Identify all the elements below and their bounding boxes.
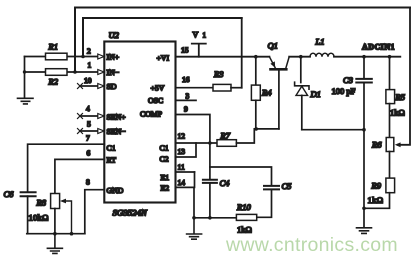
wire pin6 RT row to R8 [55, 159, 104, 193]
resistor R5 [389, 57, 391, 90]
svg-text:13: 13 [178, 147, 186, 156]
wire pin11 row [176, 171, 195, 173]
junction dot C3 top [362, 55, 366, 59]
svg-text:7: 7 [86, 134, 90, 143]
pin stub OSC pin3 [176, 99, 197, 101]
svg-text:C6: C6 [4, 189, 15, 199]
svg-text:14: 14 [178, 178, 186, 187]
pin triangle pin4 [98, 114, 104, 119]
svg-text:V: V [193, 31, 199, 40]
svg-text:IN+: IN+ [107, 53, 120, 62]
svg-text:C3: C3 [343, 75, 353, 85]
svg-text:4: 4 [86, 104, 90, 113]
capacitor C4 [203, 180, 217, 183]
ground G4 (bottom right) [357, 228, 372, 234]
wire C5 bottom to R10 [257, 189, 272, 217]
capacitor C3 [363, 57, 365, 79]
ground G3 (mid bottom) [187, 218, 202, 239]
R6 wiper arrow [395, 142, 401, 147]
svg-text:www.cntronics.com: www.cntronics.com [225, 234, 398, 256]
junction dot R5 top [388, 55, 392, 59]
capacitor C5 [264, 186, 279, 190]
wire COMP down [176, 115, 210, 180]
svg-text:11: 11 [178, 163, 185, 172]
pin stub SEN+ pin4 with x [80, 115, 98, 117]
svg-text:C2: C2 [160, 155, 169, 164]
svg-text:3: 3 [186, 92, 190, 101]
svg-text:R5: R5 [395, 92, 405, 102]
wire pin12 row to R7 [176, 142, 218, 144]
svg-text:R4: R4 [261, 88, 272, 98]
wire R2 row (pin 1 IN-) [25, 71, 98, 73]
resistor R3 [213, 84, 231, 91]
svg-text:SD: SD [107, 82, 117, 91]
junction dot feedback/pin1 [73, 70, 77, 74]
svg-text:6: 6 [87, 149, 91, 158]
wire bottom-left ground bus [27, 233, 85, 235]
svg-text:R2: R2 [48, 77, 59, 87]
R8 wiper arrow [63, 201, 72, 234]
svg-text:E2: E2 [161, 184, 170, 193]
junction dot COMP/pin12 row [208, 141, 212, 145]
wire rail collector to L1 [289, 56, 310, 58]
svg-text:C1: C1 [107, 144, 116, 153]
svg-text:R1: R1 [48, 42, 58, 52]
pin triangle pin1 [98, 70, 104, 75]
potentiometer R8 [51, 194, 60, 209]
svg-text:R6: R6 [371, 140, 382, 150]
svg-text:D1: D1 [310, 89, 321, 99]
svg-text:9: 9 [184, 105, 188, 114]
svg-text:5: 5 [87, 120, 91, 129]
junction dot C4-bus [208, 216, 212, 220]
svg-text:2: 2 [87, 47, 91, 56]
wire pin14 loop [176, 172, 195, 187]
svg-text:E1: E1 [161, 173, 170, 182]
wire top feedback (R6 wiper to IN-) [75, 7, 410, 9]
IC U1 SG3524N box [104, 42, 175, 203]
wire main +V rail from pin15 [176, 56, 270, 58]
junction dot R4 bottom [254, 127, 258, 131]
wire right drop of top feedback to R6 wiper [398, 8, 410, 145]
svg-text:C4: C4 [220, 178, 231, 188]
svg-text:COMP: COMP [140, 110, 163, 119]
svg-text:+VI: +VI [157, 54, 170, 63]
wire rail L1 to right [334, 56, 400, 58]
svg-text:1kΩ: 1kΩ [368, 195, 384, 205]
resistor R10 [236, 214, 256, 220]
svg-text:IN−: IN− [107, 68, 120, 77]
ground G1 (under R1/R2) [18, 98, 34, 104]
wire left vertical to ground [24, 57, 26, 98]
wire pin7 CT row to C6 [28, 144, 105, 192]
junction dot E-bus [192, 216, 196, 220]
wire R8 bottom [54, 209, 56, 234]
svg-text:12: 12 [178, 132, 186, 141]
power symbol +V1 [192, 44, 206, 57]
svg-text:+5V: +5V [151, 84, 165, 93]
svg-text:Q1: Q1 [268, 41, 278, 51]
svg-text:1: 1 [88, 61, 92, 70]
svg-text:L1: L1 [315, 37, 325, 47]
svg-text:1kΩ: 1kΩ [390, 108, 405, 118]
pin triangle pin5 [98, 129, 104, 134]
svg-text:C5: C5 [282, 181, 292, 191]
junction dot D1 top [299, 55, 303, 59]
wire R9 bottom to C3 vertical [364, 193, 390, 209]
wire R3 right to vertical [231, 87, 242, 89]
svg-text:SEN−: SEN− [107, 127, 127, 136]
junction dot C3/R9 bus [362, 207, 366, 211]
wire pin8 GND row [85, 190, 105, 234]
svg-text:C1: C1 [160, 144, 169, 153]
wire R1 row (pin 2 IN+) [25, 56, 98, 58]
wire D1 bottom to C3 vertical [302, 129, 364, 131]
ground G2 (bottom left) [47, 234, 62, 254]
wire mid ground bus [194, 217, 236, 219]
svg-text:RT: RT [107, 156, 117, 165]
junction dot R4 top [254, 55, 258, 59]
potentiometer R6 [386, 138, 394, 152]
wire C4 bottom [209, 183, 211, 218]
svg-text:10: 10 [84, 76, 92, 85]
junction dot R2 row [23, 70, 26, 73]
resistor R9 [386, 178, 395, 193]
svg-text:1: 1 [203, 32, 207, 40]
svg-text:15: 15 [181, 46, 189, 55]
pin triangle pin10 [98, 84, 104, 89]
svg-text:R8: R8 [36, 198, 47, 208]
svg-text:SEN+: SEN+ [107, 113, 127, 122]
capacitor C6 [21, 192, 36, 196]
svg-text:ADCIN1: ADCIN1 [362, 43, 395, 52]
svg-text:R9: R9 [371, 181, 382, 191]
resistor R4 [255, 57, 257, 85]
svg-text:1kΩ: 1kΩ [237, 225, 252, 235]
svg-text:R10: R10 [236, 202, 251, 212]
wire R5 to R6 [389, 104, 391, 138]
diode D1 zener [300, 57, 302, 83]
svg-text:10kΩ: 10kΩ [29, 213, 49, 223]
wire second feedback (VREF node to IN+) [83, 17, 242, 19]
wire R7 right to base node [236, 129, 279, 143]
wire COMP branch to C5 [210, 167, 272, 186]
resistor R7 [217, 140, 236, 147]
inductor L1 [310, 53, 334, 56]
svg-text:U2: U2 [109, 30, 120, 40]
wire E1E2 down to ground bus [193, 187, 195, 217]
svg-text:SG3524N: SG3524N [113, 208, 148, 218]
svg-text:R7: R7 [220, 131, 231, 141]
pin stub SEN- pin5 with x [80, 130, 98, 132]
wire left drop of second feedback to pin 2 [82, 18, 84, 57]
svg-text:16: 16 [182, 75, 190, 84]
wire right drop of second feedback to R3 [241, 18, 243, 88]
wire pin13 loop [176, 143, 197, 157]
svg-text:8: 8 [86, 178, 90, 187]
transistor Q1 [269, 57, 275, 68]
wire R6 to R9 [389, 152, 391, 179]
svg-text:R3: R3 [213, 69, 223, 79]
resistor R1 [46, 53, 68, 60]
pin triangle pin2 [98, 54, 104, 59]
wire left drop of top feedback to pin 1 [74, 8, 76, 73]
svg-text:GND: GND [107, 186, 124, 195]
junction dot wiper-bus [70, 232, 74, 236]
junction dot D1-line/C3 [362, 128, 366, 132]
resistor R2 [46, 69, 68, 76]
junction dot feedback2/pin2 [81, 55, 85, 59]
svg-text:OSC: OSC [148, 96, 163, 105]
wire C6 bottom [27, 196, 29, 234]
wire pin16 +5V to R3 [176, 87, 214, 89]
svg-text:100 pF: 100 pF [332, 86, 356, 96]
junction dot R8-bus [53, 232, 57, 236]
pin stub SD pin10 with x [80, 85, 98, 87]
